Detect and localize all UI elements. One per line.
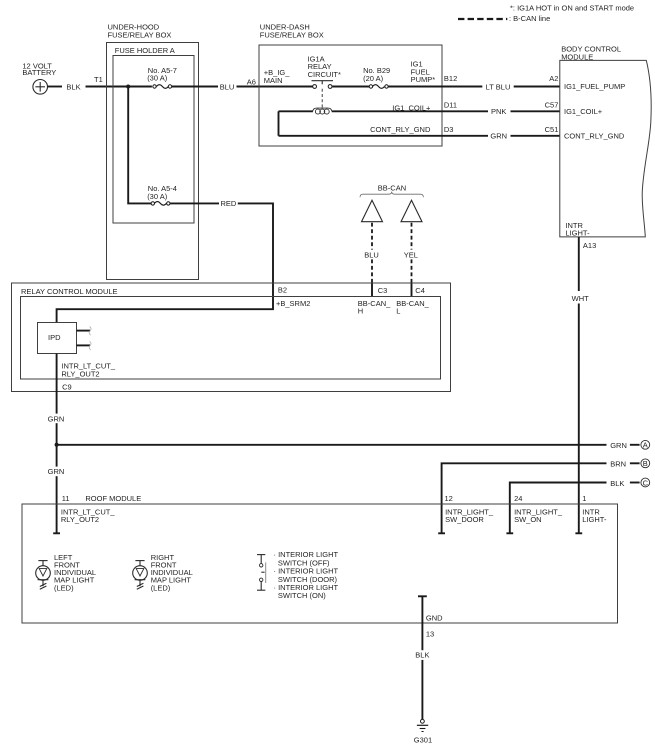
svg-text:SW_DOOR: SW_DOOR [445, 515, 484, 524]
lamp left front individual map light (LED) [36, 553, 96, 592]
svg-text:A2: A2 [549, 74, 558, 83]
pin C4 label [396, 286, 429, 316]
pin 11 INTR_LT_CUT_RLY_OUT2 [53, 507, 115, 533]
svg-text:G301: G301 [414, 735, 432, 744]
svg-text:SWITCH (ON): SWITCH (ON) [278, 591, 326, 600]
svg-text:RLY_OUT2: RLY_OUT2 [61, 369, 99, 378]
svg-text:BATTERY: BATTERY [22, 68, 56, 77]
under-hood fuse/relay box [106, 23, 198, 280]
relay coil [313, 108, 332, 114]
relay IG1A contacts [308, 54, 341, 88]
switch interior light (OFF/DOOR/ON) [257, 550, 339, 600]
svg-text:FUSE HOLDER A: FUSE HOLDER A [115, 46, 175, 55]
svg-text:(20 A): (20 A) [363, 74, 384, 83]
svg-text:CIRCUIT*: CIRCUIT* [308, 70, 341, 79]
svg-text:(LED): (LED) [54, 583, 74, 592]
lamp right front individual map light (LED) [133, 553, 193, 592]
svg-text:BLK: BLK [610, 479, 624, 488]
svg-text:D3: D3 [444, 125, 454, 134]
fuse A5-7 (30 A) [147, 66, 177, 88]
wire RED from fuse A5-4 to relay control module B2 [57, 199, 273, 322]
svg-text:SW_ON: SW_ON [514, 515, 542, 524]
wire junction T1 down to fuse A5-4 [128, 87, 151, 204]
svg-text:+B_SRM2: +B_SRM2 [276, 299, 310, 308]
wire GRN from IPD through C9 to junction and roof module pin 11 [48, 354, 65, 534]
dashed wire BLU (B-CAN) to C3 [364, 223, 379, 297]
terminal C [641, 478, 650, 487]
under-dash fuse/relay box [259, 23, 442, 147]
battery 12 VOLT [22, 61, 56, 94]
svg-text:D11: D11 [444, 100, 457, 109]
wire CONT_RLY_GND to D3 and BCM C51 (GRN) [279, 125, 560, 141]
terminal B [641, 459, 650, 468]
pin B2 label [276, 286, 310, 308]
svg-text:YEL: YEL [404, 250, 418, 259]
svg-text:BLU: BLU [364, 250, 379, 259]
svg-text:IG1_FUEL_PUMP: IG1_FUEL_PUMP [564, 82, 625, 91]
fuse A5-4 (30 A) [147, 184, 177, 205]
svg-text:IG1_COIL+: IG1_COIL+ [564, 107, 603, 116]
pin 1 INTR_LIGHT- [575, 494, 607, 534]
svg-text:MAIN: MAIN [264, 76, 283, 85]
svg-text:GND: GND [426, 614, 443, 623]
svg-text:CONT_RLY_GND: CONT_RLY_GND [370, 125, 431, 134]
wire relay coil return vertical [278, 111, 280, 136]
fuse No. B29 (20 A) [363, 66, 390, 88]
svg-text:GRN: GRN [490, 132, 507, 141]
svg-text:CONT_RLY_GND: CONT_RLY_GND [564, 132, 625, 141]
label IG1 FUEL PUMP* [411, 60, 436, 85]
wire BLK battery to T1 [48, 75, 152, 91]
wire main feed through relay to fuse B29 [332, 86, 369, 88]
svg-text:FUSE/RELAY BOX: FUSE/RELAY BOX [108, 30, 172, 39]
relay control module outer box [11, 283, 450, 391]
svg-text:*: IG1A HOT in ON and START mo: *: IG1A HOT in ON and START mode [510, 4, 634, 13]
ground G301 [414, 719, 432, 744]
BB-CAN label and bracket [360, 184, 423, 198]
svg-text:T1: T1 [94, 75, 103, 84]
svg-text:GRN: GRN [48, 414, 65, 423]
svg-text:PUMP*: PUMP* [411, 75, 436, 84]
svg-text:BLK: BLK [415, 651, 429, 660]
svg-text:L: L [396, 307, 400, 316]
connector triangle BB-CAN H [362, 200, 383, 221]
svg-text:IG1_COIL+: IG1_COIL+ [392, 104, 431, 113]
legend B-CAN dashed line sample [458, 14, 550, 23]
svg-text:C57: C57 [545, 100, 559, 109]
svg-text:PNK: PNK [491, 107, 506, 116]
svg-text:BLK: BLK [66, 82, 80, 91]
svg-text:C9: C9 [62, 383, 72, 392]
dashed link relay contact to coil [321, 89, 323, 108]
wire BRN from roof pin 12 to connector B [442, 460, 640, 534]
svg-text:RLY_OUT2: RLY_OUT2 [61, 515, 99, 524]
svg-text:(LED): (LED) [151, 583, 171, 592]
pin C3 label [358, 286, 391, 316]
svg-text:A6: A6 [247, 78, 256, 87]
svg-text:LIGHT-: LIGHT- [582, 515, 607, 524]
svg-text:12: 12 [445, 494, 453, 503]
relay control module inner box [21, 297, 441, 380]
svg-text:C: C [643, 478, 649, 487]
svg-text:RELAY CONTROL MODULE: RELAY CONTROL MODULE [21, 287, 118, 296]
connector triangle BB-CAN L [401, 200, 422, 221]
svg-text:GRN: GRN [610, 441, 627, 450]
svg-text:11: 11 [62, 494, 70, 503]
wire BLK from roof pin 24 to connector C [510, 479, 640, 534]
svg-text:LIGHT-: LIGHT- [565, 229, 590, 238]
svg-text:WHT: WHT [572, 294, 589, 303]
wire fuse B29 to B12 and on to BCM A2 (LT BLU) [388, 74, 560, 91]
svg-text:ROOF MODULE: ROOF MODULE [85, 494, 141, 503]
pin C9 label INTR_LT_CUT_RLY_OUT2 [61, 362, 115, 392]
svg-text:C4: C4 [415, 286, 425, 295]
svg-text:GRN: GRN [48, 467, 65, 476]
svg-text:A: A [643, 441, 648, 450]
wire WHT from BCM A13 down to roof module pin 1 [572, 237, 589, 533]
terminal A [641, 440, 650, 449]
svg-text:B: B [643, 459, 648, 468]
svg-text:BRN: BRN [610, 460, 626, 469]
svg-text:C51: C51 [545, 125, 559, 134]
svg-text:IPD: IPD [48, 333, 61, 342]
body control module [560, 45, 651, 238]
svg-text:13: 13 [426, 629, 434, 638]
wire GRN to connector A [57, 441, 640, 450]
fuse holder A box [113, 46, 194, 223]
svg-text:RED: RED [220, 199, 236, 208]
IPD pin stub 2 with continuation squiggle [77, 341, 92, 350]
svg-text:LT BLU: LT BLU [486, 82, 511, 91]
svg-text:H: H [358, 307, 363, 316]
wire BLU to under-dash A6 [172, 78, 313, 92]
node junction GRN splice [55, 443, 59, 447]
svg-text:B2: B2 [278, 286, 287, 295]
dashed wire YEL (B-CAN) to C4 [404, 223, 418, 297]
node T1 junction [126, 85, 130, 89]
svg-text:B12: B12 [444, 74, 457, 83]
IPD unit box [38, 322, 77, 353]
svg-text:C3: C3 [378, 286, 388, 295]
svg-text:(30 A): (30 A) [147, 192, 168, 201]
svg-text:FUSE/RELAY BOX: FUSE/RELAY BOX [260, 30, 324, 39]
IPD pin stub 1 with continuation squiggle [77, 327, 92, 336]
svg-text:1: 1 [582, 494, 586, 503]
pin 24 INTR_LIGHT_SW_ON [506, 494, 562, 534]
wire coil line IG1_COIL+ to D11 and BCM C57 (PNK) [279, 100, 560, 116]
svg-text:24: 24 [514, 494, 522, 503]
roof module box [22, 494, 617, 623]
pin GND 13 with wire BLK to ground [415, 596, 443, 719]
svg-text:BLU: BLU [220, 82, 235, 91]
svg-text:: B-CAN line: : B-CAN line [509, 14, 550, 23]
svg-text:(30 A): (30 A) [147, 73, 168, 82]
svg-text:BB-CAN: BB-CAN [378, 184, 406, 193]
legend note: IG1A hot modes [510, 4, 634, 13]
svg-text:A13: A13 [583, 241, 596, 250]
pin 12 INTR_LIGHT_SW_DOOR [438, 494, 494, 534]
svg-text:BB-CAN_: BB-CAN_ [396, 299, 429, 308]
label +B_IG_MAIN [264, 68, 290, 85]
